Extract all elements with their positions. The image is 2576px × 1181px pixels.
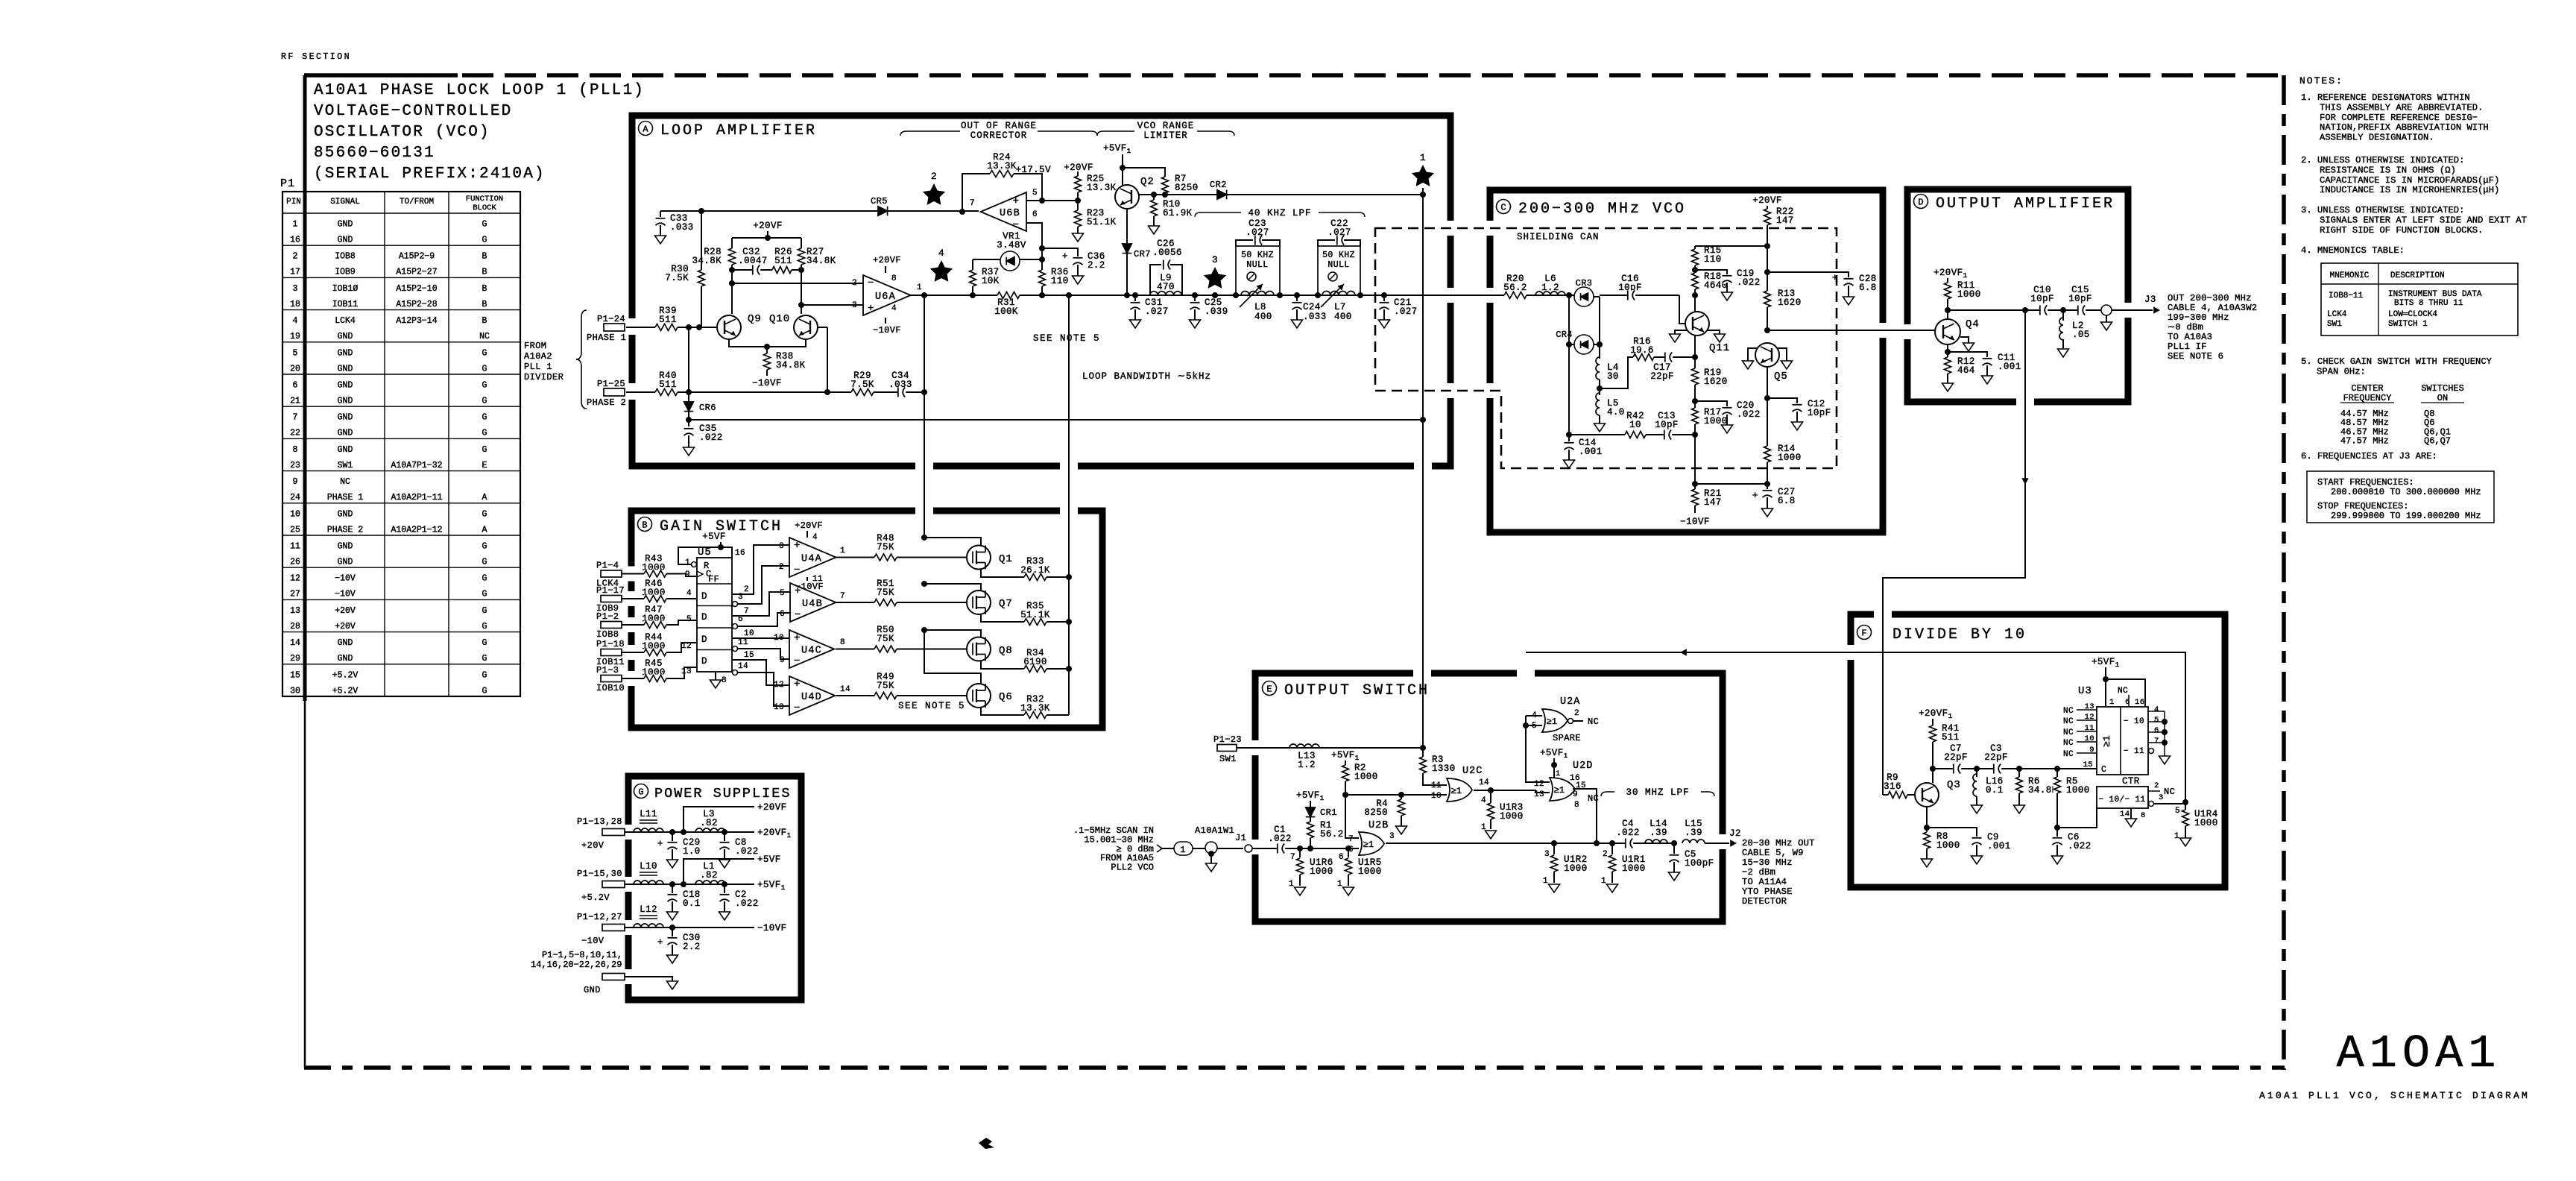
svg-text:−: − bbox=[868, 277, 874, 289]
svg-text:75K: 75K bbox=[877, 588, 894, 598]
wire C32 R26 row bbox=[732, 269, 801, 271]
supply -10VF U6A bbox=[885, 318, 886, 324]
svg-text:1000: 1000 bbox=[2066, 785, 2090, 796]
connector J3 bbox=[2101, 305, 2112, 315]
svg-text:7: 7 bbox=[840, 592, 845, 601]
svg-text:1. REFERENCE DESIGNATORS WITHI: 1. REFERENCE DESIGNATORS WITHIN bbox=[2301, 92, 2470, 103]
wire output amplifier row bbox=[1948, 309, 2153, 311]
node C2 bbox=[722, 881, 727, 887]
svg-text:2.2: 2.2 bbox=[1087, 260, 1105, 271]
svg-text:GND: GND bbox=[338, 236, 353, 245]
svg-text:NC: NC bbox=[2063, 728, 2074, 737]
svg-text:2: 2 bbox=[1603, 850, 1608, 859]
svg-text:G: G bbox=[482, 654, 487, 664]
svg-text:12: 12 bbox=[774, 681, 784, 690]
svg-text:2: 2 bbox=[2154, 781, 2159, 790]
svg-text:GND: GND bbox=[338, 558, 353, 567]
svg-text:−2 dBm: −2 dBm bbox=[1742, 867, 1775, 878]
chevron scan in bbox=[1157, 845, 1162, 852]
outer dashed border top edge bbox=[304, 73, 458, 78]
svg-text:200.000010 TO 300.000000 MHz: 200.000010 TO 300.000000 MHz bbox=[2331, 487, 2481, 497]
svg-text:D: D bbox=[701, 591, 707, 602]
connector J1 circle bbox=[1245, 845, 1252, 852]
svg-text:C: C bbox=[1500, 203, 1506, 213]
svg-text:GND: GND bbox=[338, 413, 353, 423]
svg-text:5: 5 bbox=[293, 348, 298, 358]
svg-text:1: 1 bbox=[1556, 770, 1560, 778]
svg-text:+5VF: +5VF bbox=[702, 532, 726, 542]
resistor R38 bbox=[763, 353, 771, 370]
supply +20VF U6A bbox=[885, 266, 886, 273]
wire Q10 base bbox=[818, 327, 827, 328]
wire Q7 source to R35 bbox=[981, 614, 1069, 622]
cable marker 1 bbox=[1162, 848, 1174, 849]
wire Q5 emitter chain bbox=[1767, 367, 1768, 484]
svg-text:CORRECTOR: CORRECTOR bbox=[970, 130, 1028, 141]
svg-text:1000: 1000 bbox=[1500, 811, 1524, 822]
svg-text:PHASE 1: PHASE 1 bbox=[327, 493, 363, 503]
svg-text:OUTPUT AMPLIFIER: OUTPUT AMPLIFIER bbox=[1936, 195, 2115, 212]
svg-text:3. UNLESS OTHERWISE INDICATED:: 3. UNLESS OTHERWISE INDICATED: bbox=[2301, 205, 2464, 215]
svg-text:G: G bbox=[482, 638, 487, 648]
ground below C14 bbox=[1564, 460, 1575, 468]
svg-text:1: 1 bbox=[2174, 832, 2179, 841]
ground psu bbox=[667, 981, 678, 989]
svg-text:NC: NC bbox=[479, 332, 490, 341]
diode CR1 bbox=[1306, 807, 1316, 817]
wire U2D output bbox=[1573, 789, 1597, 843]
svg-text:26: 26 bbox=[290, 558, 300, 567]
wire vco input row bbox=[1453, 295, 1575, 296]
wire U4A out bbox=[836, 557, 967, 558]
svg-text:.0047: .0047 bbox=[738, 256, 768, 266]
svg-text:G: G bbox=[482, 686, 487, 696]
svg-text:+20VF: +20VF bbox=[795, 520, 823, 531]
svg-text:SWITCHES: SWITCHES bbox=[2421, 383, 2464, 394]
svg-text:+: + bbox=[1062, 251, 1068, 262]
svg-text:316: 316 bbox=[1884, 781, 1901, 792]
svg-text:B: B bbox=[482, 252, 487, 262]
svg-text:GND: GND bbox=[338, 348, 353, 358]
svg-text:D: D bbox=[701, 634, 707, 645]
svg-text:+: + bbox=[794, 632, 801, 644]
wire Q6 source to R32 bbox=[981, 708, 1069, 715]
svg-text:11: 11 bbox=[738, 638, 748, 647]
op-amp U4D bbox=[789, 676, 835, 715]
svg-text:10: 10 bbox=[744, 629, 754, 638]
svg-text:NC: NC bbox=[340, 477, 350, 487]
svg-text:D: D bbox=[701, 656, 707, 667]
feedback wire to output switch bbox=[1526, 652, 2185, 802]
svg-text:FROM: FROM bbox=[524, 341, 546, 351]
svg-text:147: 147 bbox=[1704, 497, 1722, 508]
svg-text:1000: 1000 bbox=[1354, 772, 1378, 782]
svg-text:+20V: +20V bbox=[335, 606, 356, 616]
svg-text:1000: 1000 bbox=[1957, 289, 1981, 300]
capacitor C21 bbox=[1383, 295, 1385, 301]
svg-text:1620: 1620 bbox=[1704, 377, 1728, 387]
svg-text:−10V: −10V bbox=[335, 574, 356, 584]
svg-text:NC: NC bbox=[2063, 707, 2074, 716]
svg-text:110: 110 bbox=[1704, 254, 1722, 265]
svg-text:34.8K: 34.8K bbox=[692, 256, 722, 266]
svg-text:15: 15 bbox=[2083, 760, 2093, 769]
svg-text:1000: 1000 bbox=[1310, 866, 1333, 877]
svg-text:BLOCK: BLOCK bbox=[473, 204, 496, 212]
svg-text:1: 1 bbox=[1420, 152, 1426, 163]
node gain bus tap bbox=[1066, 292, 1072, 298]
wire Q9 Q10 emitters bbox=[729, 339, 806, 347]
svg-text:LOOP BANDWIDTH ∼5kHz: LOOP BANDWIDTH ∼5kHz bbox=[1082, 371, 1211, 382]
svg-text:SIGNALS ENTER AT LEFT SIDE AND: SIGNALS ENTER AT LEFT SIDE AND EXIT AT bbox=[2320, 215, 2527, 225]
diode CR6 bbox=[684, 402, 694, 412]
svg-text:1: 1 bbox=[293, 220, 298, 230]
svg-text:.022: .022 bbox=[1737, 277, 1761, 288]
wire U4C out bbox=[836, 649, 967, 650]
svg-text:B: B bbox=[642, 520, 647, 531]
svg-text:BITS 8 THRU 11: BITS 8 THRU 11 bbox=[2394, 299, 2463, 308]
svg-text:1000: 1000 bbox=[1936, 840, 1960, 851]
capacitor C36 bbox=[1073, 257, 1083, 265]
wire Q8 source to R34 bbox=[981, 661, 1069, 669]
svg-text:−10V: −10V bbox=[335, 590, 356, 599]
svg-text:SIGNAL: SIGNAL bbox=[330, 198, 360, 207]
wire CR branch left bbox=[1568, 295, 1570, 441]
svg-text:TO A11A4: TO A11A4 bbox=[1742, 877, 1787, 887]
wire Q4 collector node bbox=[1947, 310, 1948, 319]
svg-text:18: 18 bbox=[290, 300, 300, 309]
svg-text:GND: GND bbox=[338, 397, 353, 406]
svg-text:100pF: 100pF bbox=[1685, 858, 1714, 869]
capacitor C18 bbox=[672, 884, 673, 893]
svg-text:OUT 200−300 MHz: OUT 200−300 MHz bbox=[2168, 293, 2252, 303]
svg-text:1: 1 bbox=[917, 283, 922, 292]
wire R15 R18 leg bbox=[1694, 246, 1696, 295]
svg-text:+: + bbox=[794, 540, 801, 552]
function block E border (OUTPUT SWITCH) bbox=[1255, 673, 1723, 922]
svg-text:1: 1 bbox=[2109, 698, 2115, 707]
inductor L5 bbox=[1596, 393, 1600, 415]
wire divide feed vertical bbox=[1883, 310, 2025, 795]
wire Q10 collector bbox=[801, 270, 802, 314]
resistor R6 branch bbox=[2018, 769, 2020, 777]
svg-text:+20V: +20V bbox=[581, 840, 604, 851]
wire star1 vertical to output switch bbox=[1422, 188, 1424, 748]
svg-text:DESCRIPTION: DESCRIPTION bbox=[2390, 271, 2445, 280]
node R30 top bbox=[698, 208, 704, 214]
outer dashed border bottom edge bbox=[304, 1065, 2285, 1070]
svg-text:P1−23: P1−23 bbox=[1213, 734, 1242, 745]
svg-text:P1−18: P1−18 bbox=[596, 639, 625, 649]
svg-text:1330: 1330 bbox=[1432, 763, 1456, 774]
svg-text:1: 1 bbox=[1601, 877, 1606, 886]
svg-text:A15P2−9: A15P2−9 bbox=[399, 252, 435, 262]
svg-text:75K: 75K bbox=[877, 681, 894, 691]
svg-text:3: 3 bbox=[779, 542, 784, 551]
svg-text:1.2: 1.2 bbox=[1541, 283, 1559, 293]
svg-text:U2D: U2D bbox=[1573, 760, 1593, 772]
svg-text:P1−24: P1−24 bbox=[597, 314, 625, 324]
ground below C36 bbox=[1073, 276, 1084, 284]
svg-text:OSCILLATOR (VCO): OSCILLATOR (VCO) bbox=[314, 124, 490, 141]
resistor R2 bbox=[1342, 765, 1350, 781]
svg-text:SEE NOTE 5: SEE NOTE 5 bbox=[1033, 333, 1100, 344]
svg-text:A: A bbox=[643, 125, 648, 135]
resistor R36 bbox=[1041, 259, 1043, 270]
counter U3 divider box bbox=[2097, 787, 2148, 808]
svg-text:U2B: U2B bbox=[1368, 820, 1389, 831]
resistor R8 bbox=[1926, 828, 1928, 832]
wire R16 C17 row bbox=[1600, 357, 1695, 388]
svg-text:+: + bbox=[657, 838, 663, 849]
svg-text:.033: .033 bbox=[1303, 312, 1327, 322]
ground below C30 bbox=[667, 955, 678, 963]
svg-text:INDUCTANCE IS IN MICROHENRIES(: INDUCTANCE IS IN MICROHENRIES(μH) bbox=[2320, 185, 2499, 195]
svg-text:Q9: Q9 bbox=[748, 313, 762, 325]
wire R27 leg bbox=[801, 238, 802, 270]
svg-text:3: 3 bbox=[738, 593, 743, 602]
svg-text:IOB8−11: IOB8−11 bbox=[2329, 292, 2364, 300]
wire feedback into U2D pin12 bbox=[1526, 716, 1550, 782]
svg-text:RF SECTION: RF SECTION bbox=[281, 52, 351, 62]
svg-text:.027: .027 bbox=[1394, 306, 1418, 317]
svg-text:.82: .82 bbox=[700, 870, 718, 881]
svg-text:7: 7 bbox=[1348, 835, 1354, 844]
svg-text:Q5: Q5 bbox=[1774, 371, 1788, 382]
ground below R23 bbox=[1073, 233, 1084, 242]
block E title bbox=[1263, 681, 1277, 696]
svg-text:U4D: U4D bbox=[801, 692, 822, 703]
svg-text:+20VF: +20VF bbox=[757, 802, 787, 813]
svg-text:U6B: U6B bbox=[1000, 208, 1020, 219]
svg-text:−: − bbox=[794, 702, 801, 714]
svg-text:21: 21 bbox=[290, 397, 300, 406]
svg-text:IOB11: IOB11 bbox=[332, 300, 359, 309]
svg-text:11: 11 bbox=[1431, 781, 1442, 790]
svg-text:50 KHZ: 50 KHZ bbox=[1241, 251, 1274, 260]
svg-text:30: 30 bbox=[1607, 371, 1619, 382]
svg-text:GND: GND bbox=[338, 445, 353, 455]
svg-text:+: + bbox=[657, 936, 663, 948]
op-amp U6A bbox=[863, 275, 911, 315]
svg-text:OUTPUT SWITCH: OUTPUT SWITCH bbox=[1284, 682, 1430, 699]
resistor R7 bbox=[1161, 177, 1169, 193]
svg-text:L12: L12 bbox=[640, 904, 657, 915]
svg-text:3: 3 bbox=[1544, 850, 1550, 859]
svg-text:6: 6 bbox=[1032, 210, 1038, 219]
wire R21 C27 row bbox=[1695, 483, 1767, 485]
svg-text:8: 8 bbox=[840, 638, 845, 647]
op-amp U4A bbox=[789, 538, 836, 577]
diode CR5 bbox=[878, 207, 888, 216]
wire main lpf row bbox=[1069, 295, 1453, 296]
node R28 bottom bbox=[729, 267, 735, 273]
svg-text:≥1: ≥1 bbox=[1363, 840, 1374, 850]
svg-text:GND: GND bbox=[338, 364, 353, 374]
node C25 bbox=[1192, 292, 1198, 298]
svg-text:VOLTAGE−CONTROLLED: VOLTAGE−CONTROLLED bbox=[314, 103, 512, 120]
svg-text:− 11: − 11 bbox=[2124, 747, 2144, 756]
svg-text:THIS ASSEMBLY ARE ABBREVIATED.: THIS ASSEMBLY ARE ABBREVIATED. bbox=[2320, 102, 2483, 113]
svg-text:.82: .82 bbox=[700, 818, 718, 828]
svg-text:+: + bbox=[1832, 272, 1838, 283]
svg-text:+5.2V: +5.2V bbox=[581, 892, 610, 903]
wire Q1 source to R33 bbox=[981, 569, 1069, 577]
svg-text:400: 400 bbox=[1334, 312, 1352, 322]
svg-text:+20VF: +20VF bbox=[1064, 163, 1093, 173]
shielding can dashed outline bbox=[1375, 228, 1837, 468]
svg-text:CTR: CTR bbox=[2122, 776, 2140, 787]
svg-text:G: G bbox=[482, 574, 487, 584]
svg-text:NC: NC bbox=[2063, 739, 2074, 748]
svg-text:6: 6 bbox=[738, 615, 743, 624]
svg-text:A: A bbox=[482, 525, 487, 535]
svg-text:U3: U3 bbox=[2078, 685, 2092, 697]
capacitor C5 branch bbox=[1673, 843, 1675, 854]
capacitor C29 bbox=[672, 832, 673, 841]
svg-text:.001: .001 bbox=[1998, 362, 2021, 372]
svg-text:7: 7 bbox=[970, 199, 975, 208]
svg-text:+5.2V: +5.2V bbox=[332, 670, 359, 680]
ground below C5 bbox=[1669, 872, 1680, 881]
transistor Q5 bbox=[1755, 343, 1779, 367]
svg-text:L8: L8 bbox=[1254, 302, 1266, 312]
capacitor C19 branch bbox=[1695, 270, 1727, 274]
svg-text:A10A1 PHASE LOCK LOOP 1 (PLL1): A10A1 PHASE LOCK LOOP 1 (PLL1) bbox=[314, 82, 645, 99]
fet Q1 bbox=[967, 546, 991, 570]
svg-text:IOB1Ø: IOB1Ø bbox=[332, 284, 359, 294]
wire R37 leg bbox=[972, 259, 973, 270]
svg-text:+20VF1: +20VF1 bbox=[1933, 268, 1968, 280]
svg-text:2: 2 bbox=[744, 585, 749, 594]
svg-text:G: G bbox=[482, 348, 487, 358]
svg-text:Q6: Q6 bbox=[999, 691, 1013, 703]
svg-text:Q10: Q10 bbox=[769, 313, 790, 325]
svg-text:LCK4: LCK4 bbox=[2327, 310, 2347, 319]
svg-text:Q2: Q2 bbox=[1140, 176, 1155, 188]
svg-text:+: + bbox=[868, 303, 874, 315]
resistor R11 bbox=[1944, 283, 1952, 299]
ground below L5 bbox=[1594, 423, 1606, 432]
resistor R25 bbox=[1077, 176, 1079, 201]
svg-text:Q7: Q7 bbox=[999, 598, 1013, 610]
svg-text:4: 4 bbox=[1481, 796, 1486, 805]
svg-text:15−30 MHz: 15−30 MHz bbox=[1742, 857, 1793, 868]
svg-text:DIVIDE BY 10: DIVIDE BY 10 bbox=[1892, 626, 2027, 643]
svg-text:1: 1 bbox=[1543, 877, 1548, 886]
wire U2A inputs from feedback bbox=[1526, 715, 1542, 717]
svg-text:+: + bbox=[1752, 490, 1758, 501]
node C21 bbox=[1381, 292, 1387, 298]
svg-text:TO/FROM: TO/FROM bbox=[400, 198, 434, 207]
svg-text:6. FREQUENCIES AT J3 ARE:: 6. FREQUENCIES AT J3 ARE: bbox=[2301, 451, 2437, 462]
svg-text:+20V: +20V bbox=[335, 622, 356, 632]
star marker 3 bbox=[1233, 292, 1239, 298]
node C30 bbox=[669, 925, 675, 930]
svg-text:A15P2−10: A15P2−10 bbox=[396, 284, 437, 294]
svg-text:1: 1 bbox=[685, 558, 690, 567]
svg-text:G: G bbox=[482, 509, 487, 519]
svg-text:5: 5 bbox=[1032, 189, 1038, 198]
wire R7 top rail bbox=[1123, 168, 1165, 177]
svg-text:≥1: ≥1 bbox=[1554, 785, 1565, 796]
resistor R1 bbox=[1307, 822, 1315, 838]
svg-text:2: 2 bbox=[779, 563, 784, 572]
ground below C24 bbox=[1292, 320, 1303, 328]
capacitor C14 bbox=[1568, 435, 1570, 441]
svg-text:ASSEMBLY DESIGNATION.: ASSEMBLY DESIGNATION. bbox=[2320, 133, 2434, 143]
svg-text:A10A2: A10A2 bbox=[524, 351, 552, 362]
svg-text:1000: 1000 bbox=[1358, 866, 1382, 877]
wire R5 to counter pin14 bbox=[2057, 808, 2097, 828]
svg-text:RESISTANCE IS IN OHMS (Ω): RESISTANCE IS IN OHMS (Ω) bbox=[2320, 165, 2456, 175]
svg-text:− 10/− 11: − 10/− 11 bbox=[2098, 796, 2145, 804]
svg-text:ON: ON bbox=[2437, 393, 2448, 403]
svg-text:14,16,20−22,26,29: 14,16,20−22,26,29 bbox=[531, 960, 622, 970]
ground below C25 bbox=[1190, 320, 1201, 328]
svg-text:D: D bbox=[1918, 198, 1923, 208]
svg-text:NC: NC bbox=[2063, 750, 2074, 759]
svg-text:A1OA1: A1OA1 bbox=[2336, 1027, 2501, 1080]
svg-text:0.1: 0.1 bbox=[683, 898, 701, 909]
svg-text:VCO RANGE: VCO RANGE bbox=[1137, 121, 1195, 131]
svg-text:GND: GND bbox=[338, 638, 353, 648]
svg-text:FOR COMPLETE REFERENCE DESIG−: FOR COMPLETE REFERENCE DESIG− bbox=[2320, 113, 2478, 123]
node Q3 collector bbox=[1930, 766, 1936, 772]
wire sw1 row bbox=[1237, 747, 1423, 749]
svg-text:0.1: 0.1 bbox=[1986, 785, 2004, 796]
feedback wire R24 bbox=[962, 174, 1042, 212]
ground below C27 bbox=[1762, 508, 1773, 517]
svg-text:1: 1 bbox=[1337, 880, 1342, 889]
svg-text:A10A1 PLL1 VCO, SCHEMATIC DIAG: A10A1 PLL1 VCO, SCHEMATIC DIAGRAM bbox=[2259, 1090, 2530, 1101]
svg-text:SW1: SW1 bbox=[1219, 754, 1237, 764]
svg-text:22pF: 22pF bbox=[1944, 752, 1968, 763]
block F title bbox=[1857, 626, 1872, 640]
ground below U1R2 bbox=[1549, 884, 1560, 892]
svg-text:4: 4 bbox=[891, 304, 897, 313]
svg-text:2: 2 bbox=[293, 252, 298, 262]
svg-text:≥1: ≥1 bbox=[1451, 786, 1462, 796]
svg-text:2: 2 bbox=[931, 171, 937, 182]
svg-text:.0056: .0056 bbox=[1152, 248, 1182, 258]
svg-text:13: 13 bbox=[774, 703, 784, 712]
svg-text:U4C: U4C bbox=[801, 646, 822, 657]
capacitor C11 branch bbox=[1948, 352, 1987, 357]
wire U2B input row bbox=[1252, 848, 1359, 849]
svg-text:4.0: 4.0 bbox=[1607, 407, 1625, 418]
svg-text:Q1: Q1 bbox=[999, 553, 1013, 565]
svg-text:6: 6 bbox=[293, 381, 298, 391]
svg-text:PHASE 1: PHASE 1 bbox=[587, 333, 626, 343]
ground below U1R3 bbox=[1486, 831, 1497, 839]
svg-text:2: 2 bbox=[852, 279, 857, 288]
svg-text:2.2: 2.2 bbox=[683, 942, 701, 952]
svg-text:13.3K: 13.3K bbox=[1087, 183, 1117, 193]
svg-text:GND: GND bbox=[338, 220, 353, 230]
svg-text:P1−15,30: P1−15,30 bbox=[577, 869, 622, 879]
fet Q7 bbox=[967, 590, 991, 614]
svg-text:11: 11 bbox=[290, 542, 300, 552]
node C8 bbox=[722, 829, 727, 835]
svg-text:8250: 8250 bbox=[1364, 807, 1388, 818]
resistor U1R3 bbox=[1490, 790, 1491, 803]
resistor R17 bbox=[1691, 408, 1699, 424]
svg-text:51.1K: 51.1K bbox=[1087, 217, 1117, 227]
capacitor C28 branch bbox=[1767, 272, 1849, 277]
svg-text:22pF: 22pF bbox=[1984, 752, 2008, 763]
wire C36 branch bbox=[1042, 248, 1078, 256]
